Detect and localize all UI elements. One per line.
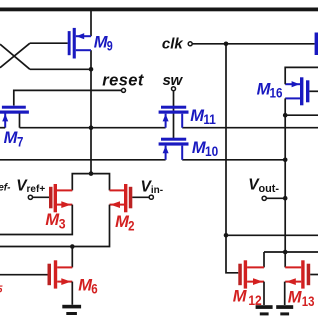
- wire clk vertical to M12 gate: [226, 44, 238, 273]
- power rail VDD (top): [0, 8, 318, 12]
- wire mid rail right segment: [182, 159, 285, 161]
- wire cross-couple B (drain side diagonal): [0, 44, 30, 69]
- wire M6 drain vertical: [71, 247, 73, 268]
- svg-text:reset: reset: [102, 72, 145, 90]
- transistor M9: [68, 28, 91, 59]
- wire reset (to M7 gate): [14, 90, 122, 105]
- svg-text:ef-: ef-: [0, 182, 11, 193]
- wire right vertical (output node): [284, 115, 286, 267]
- node M6 drain junction: [70, 244, 75, 249]
- ground (M13): [276, 305, 293, 315]
- node mid rail end junction: [283, 158, 288, 163]
- wire latch row left segment: [0, 127, 5, 129]
- transistor M2: [110, 184, 133, 212]
- node clk junction: [224, 42, 229, 47]
- wire M12 drain vertical: [263, 252, 265, 267]
- ground (M6): [62, 305, 81, 315]
- wire latch row middle segment: [20, 127, 166, 129]
- node latch junction: [89, 125, 94, 130]
- ground (M12): [256, 305, 273, 315]
- wire M2 gate: [132, 196, 149, 198]
- terminal Vref+: [28, 195, 32, 199]
- terminal sw: [172, 87, 176, 91]
- terminal Vin-: [149, 195, 153, 199]
- transistor M16: [285, 77, 309, 105]
- node clk rail junction: [224, 233, 229, 238]
- wire M3 drain down-left: [0, 205, 72, 235]
- wire M6 gate from left edge: [0, 274, 48, 276]
- wire M9 source to rail: [90, 11, 92, 36]
- wire M16 drain vertical: [284, 98, 286, 115]
- wire sw to gates: [173, 91, 175, 140]
- transistor M12: [238, 260, 264, 288]
- wire M3 gate: [33, 196, 50, 198]
- terminal Vout-: [262, 196, 266, 200]
- node M16 drain junction: [283, 113, 288, 118]
- wire M9 drain vertical: [90, 50, 92, 173]
- node Vout junction: [283, 196, 288, 201]
- wire output box top: [264, 251, 318, 253]
- wire Vout- terminal: [266, 197, 285, 199]
- wire clk horizontal: [192, 43, 314, 45]
- wire M6 source vertical: [71, 282, 73, 305]
- transistor M13: [285, 260, 310, 288]
- transistor M3: [49, 184, 72, 212]
- transistor M6: [48, 260, 73, 288]
- transistor M11: [159, 106, 189, 128]
- wire M16 source up and right: [285, 67, 318, 84]
- wire tail rail (M3/M2 sources): [72, 174, 109, 191]
- wire M2 drain down-left: [0, 205, 110, 247]
- wire cross-couple A (gate side diagonal): [0, 43, 30, 67]
- wire M16 gate to right edge: [309, 90, 318, 92]
- wire M13 source vertical: [284, 282, 286, 305]
- transistor M10: [159, 138, 189, 160]
- wire drain row to M9: [30, 68, 91, 70]
- wire M12 source vertical: [263, 282, 265, 305]
- terminal clk: [188, 42, 192, 46]
- svg-text:clk: clk: [162, 36, 184, 53]
- transistor M7: [0, 106, 29, 128]
- wire M16 drain row to right edge: [285, 114, 318, 116]
- wire M13 gate to right edge: [310, 274, 318, 276]
- wire M9 gate: [30, 42, 68, 44]
- wire mid rail left segment: [0, 159, 166, 161]
- gate bar M15 (cut off at right edge): [315, 33, 318, 56]
- node M9 drain junction: [89, 67, 94, 72]
- wire bottom-right rail: [226, 234, 318, 236]
- wire latch row right segment: [182, 127, 318, 129]
- node box junction: [283, 250, 288, 255]
- terminal reset: [122, 88, 126, 92]
- node tail junction: [89, 171, 94, 176]
